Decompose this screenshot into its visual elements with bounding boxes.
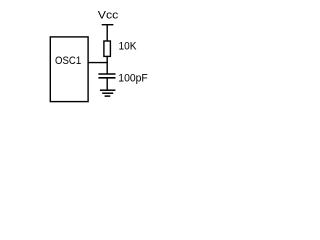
ground bar 2 [102, 92, 113, 94]
svg-text:10K: 10K [119, 41, 138, 53]
resistor R1 body [104, 41, 111, 56]
capacitor C1 bottom plate [98, 77, 115, 79]
ground bar 3 [105, 95, 111, 97]
svg-text:Vcc: Vcc [98, 10, 119, 22]
ground bar 1 [100, 89, 116, 91]
power Vcc terminal T-bar [102, 24, 114, 26]
wire Vcc to resistor R1 [106, 25, 108, 42]
oscillator U1 body OSC1 [50, 37, 88, 102]
wire resistor R1 to capacitor C1 through node A [106, 56, 108, 74]
svg-text:100pF: 100pF [118, 73, 148, 85]
wire OSC1 output to node A [88, 62, 108, 64]
wire capacitor C1 to ground [106, 78, 108, 90]
capacitor C1 top plate [98, 73, 115, 75]
svg-text:OSC1: OSC1 [55, 55, 81, 67]
